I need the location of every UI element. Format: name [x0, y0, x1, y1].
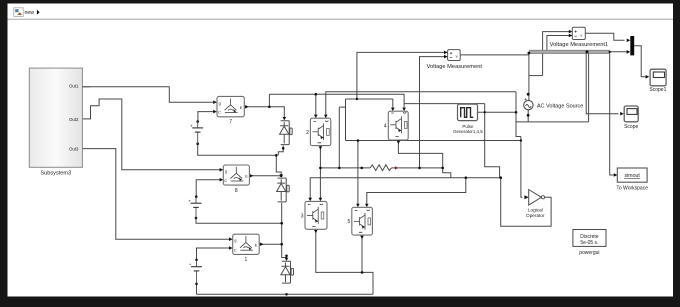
- wire rail 94: [269, 94, 404, 108]
- arrow below block2 bottom: [319, 146, 323, 149]
- junction (398.4,140.5): [397, 139, 400, 142]
- voltage measurement block: [427, 50, 483, 70]
- junction (516,112.3): [515, 111, 518, 114]
- svg-text:Generator1,4,5: Generator1,4,5: [453, 129, 483, 134]
- arrow into scope: [620, 112, 624, 116]
- svg-text:g: g: [225, 168, 227, 173]
- svg-text:To Workspace: To Workspace: [616, 185, 648, 191]
- svg-text:1: 1: [245, 257, 248, 263]
- wire bus right: [392, 167, 443, 169]
- battery B3: [189, 260, 202, 284]
- wire rail178 branch to block5 top-right: [367, 178, 466, 204]
- simout to workspace block: [616, 168, 648, 191]
- IGBT block 3 vertical: [301, 201, 327, 229]
- wire VM1 out to mux: [585, 33, 624, 40]
- svg-text:Out1: Out1: [69, 84, 79, 89]
- wire battery2 top to block8 C: [196, 180, 220, 197]
- junction (269.4,106.8): [268, 106, 271, 109]
- svg-text:E: E: [245, 173, 248, 178]
- wire battery2 bottom rail: [196, 218, 282, 223]
- arrow into block7 g: [213, 100, 217, 104]
- svg-text:Logical: Logical: [528, 208, 543, 213]
- junction (356.9,99): [356, 98, 358, 100]
- voltage measurement1 block: [550, 27, 609, 48]
- svg-text:3: 3: [301, 213, 304, 219]
- wire rail 178: [310, 178, 501, 198]
- arrow into block3 TR: [319, 198, 323, 201]
- AC voltage source: [524, 93, 584, 117]
- wire NOT input feed: [521, 137, 522, 198]
- arrow into block1 C: [229, 246, 233, 250]
- svg-text:8: 8: [235, 188, 238, 194]
- svg-text:+: +: [189, 262, 192, 267]
- wire AC plus up: [528, 53, 530, 100]
- wire pulse gen out to NOT: [477, 111, 516, 113]
- svg-text:v: v: [580, 32, 582, 37]
- junction (484.7,112.3): [484, 111, 486, 113]
- wire Out2 staircase to block8 gate: [82, 99, 220, 170]
- svg-text:g: g: [234, 238, 236, 243]
- junction (197.7,121.5): [196, 120, 199, 123]
- svg-text:5: 5: [348, 219, 351, 225]
- battery B2: [188, 197, 201, 218]
- arrow into NOT gate: [524, 195, 528, 199]
- toolbar icon: [14, 8, 23, 17]
- arrow into diodeB top: [279, 174, 283, 177]
- junction (286.5,255.8): [285, 255, 288, 258]
- arrow into mux bottom: [627, 50, 631, 54]
- band thick gray wire: [529, 50, 610, 53]
- arrow into block8 C: [220, 178, 224, 182]
- pulse generator block: [453, 104, 483, 134]
- wire bus to rail178 link: [443, 168, 451, 178]
- junction (315.8,94.2): [315, 93, 318, 96]
- svg-text:4: 4: [384, 123, 387, 129]
- wire to block2 top-left: [315, 94, 317, 115]
- svg-text:+: +: [190, 123, 193, 128]
- arrow into block4 TR: [402, 108, 406, 111]
- arrowheads: [213, 30, 649, 261]
- junction (286.5,294.3): [285, 293, 288, 296]
- arrow below block3 bottom: [314, 230, 318, 233]
- arrow into VM minus: [444, 55, 448, 59]
- junction (339.3,167.9): [338, 167, 341, 170]
- svg-text:Out3: Out3: [69, 147, 79, 152]
- IGBT block 2 vertical: [306, 118, 331, 145]
- wire gate line 103: [404, 103, 485, 105]
- arrow into VM1 minus: [569, 34, 573, 38]
- mux: [630, 36, 634, 55]
- IGBT block 5 vertical: [348, 207, 373, 235]
- toolbar arrow: [37, 10, 40, 15]
- arrow into block5 TR: [365, 204, 369, 207]
- arrow into block2 TL: [314, 115, 318, 118]
- wire AC minus: [516, 110, 589, 122]
- wire block5 bottom down: [361, 235, 363, 272]
- junction (320.4,167.9): [319, 167, 322, 170]
- arrow into block5 TL: [356, 204, 360, 207]
- junction (520.9,140.5): [520, 139, 522, 141]
- wire VM1 plus: [543, 32, 569, 76]
- junction (357.9,140.5): [357, 139, 360, 142]
- svg-text:Out2: Out2: [69, 117, 79, 122]
- wire bus left: [320, 167, 370, 169]
- wire down 345: [345, 99, 347, 141]
- wire battery3 top to block1 C: [197, 248, 230, 260]
- wire battery1 top to block7 C: [198, 112, 214, 122]
- junction (281.7,223.2): [280, 222, 283, 225]
- arrow into block7 C: [213, 110, 217, 114]
- wire L1 bridge mid rail: [346, 140, 521, 142]
- junction (361.7,167.9): [360, 167, 363, 170]
- svg-text:Voltage Measurement1: Voltage Measurement1: [550, 42, 609, 48]
- wire NOT output loop: [501, 178, 551, 227]
- wire jog 99: [346, 98, 357, 100]
- junction (609.7,51.9): [609, 51, 611, 53]
- arrow into block2 TR: [324, 115, 328, 118]
- wire jog 75: [529, 75, 543, 77]
- diode B: [277, 178, 290, 202]
- wire mux out to scope1: [634, 46, 646, 77]
- wire block8 E: [250, 175, 282, 177]
- IGBT block 1: [233, 234, 260, 263]
- arrow into scope1: [646, 75, 650, 79]
- svg-text:Scope1: Scope1: [649, 87, 666, 93]
- wire block3 bottom down: [316, 230, 373, 295]
- wire simout feed: [610, 53, 615, 175]
- wire rail155 to diodeB top: [276, 155, 281, 174]
- wire band to scope: [586, 53, 618, 113]
- wire block4 bottom to bus: [398, 141, 442, 168]
- diode C: [281, 261, 294, 283]
- junction (196.2,196.7): [195, 195, 198, 198]
- arrow into mux top: [627, 39, 631, 43]
- wire block4 TL feed: [392, 99, 394, 108]
- svg-text:2: 2: [306, 130, 309, 136]
- wire diodeA bottom jog to rail: [278, 145, 283, 155]
- arrow out block8 E: [250, 174, 254, 178]
- arrow into block3 TL: [308, 198, 312, 201]
- junction (196,217.9): [195, 217, 198, 220]
- wire jog TL: [357, 98, 393, 100]
- junction (362,272.4): [361, 271, 364, 274]
- junction (419.5,167.9): [418, 167, 421, 170]
- svg-text:v: v: [456, 54, 458, 59]
- svg-text:Subsystem3: Subsystem3: [40, 170, 71, 176]
- arrow out block7 E: [245, 105, 249, 109]
- junction (196.5,283.8): [195, 283, 198, 286]
- arrow into block4 TL: [391, 108, 395, 111]
- scope1 block: [649, 69, 666, 93]
- wire bottom rail: [197, 293, 374, 295]
- svg-text:Voltage Measurement: Voltage Measurement: [427, 64, 483, 70]
- arrow into diodeA top: [283, 117, 287, 120]
- junction (281.2,175.8): [280, 175, 283, 178]
- wire VM plus sense: [357, 52, 448, 99]
- arrow below block4 bottom: [397, 141, 401, 144]
- wire VM1 minus: [547, 36, 572, 51]
- wire pulse branch to rail178: [485, 104, 500, 178]
- wire rail 92 block2TR-block4TR: [326, 92, 516, 118]
- wire Out3 to block1 gate: [82, 149, 229, 240]
- wire block1 E right: [259, 243, 281, 245]
- wire band down 588: [588, 53, 590, 121]
- wire down 339 to bus: [338, 107, 340, 168]
- svg-text:E: E: [240, 105, 243, 110]
- IGBT block 4 vertical: [384, 111, 408, 140]
- resistor R zigzag: [370, 165, 391, 171]
- battery B1: [190, 122, 203, 144]
- svg-text:E: E: [255, 243, 258, 248]
- svg-text:new: new: [25, 10, 35, 16]
- svg-text:+: +: [188, 199, 191, 204]
- junction (465.8,177.7): [465, 176, 468, 179]
- junction (281.7,244.2): [280, 243, 283, 246]
- arrow below block5 bottom: [360, 236, 364, 239]
- junction (197.7,143.7): [196, 142, 199, 145]
- wire rail155 battery1 bottom: [198, 144, 277, 156]
- arrow into block8 g: [220, 168, 224, 172]
- svg-text:g: g: [219, 100, 221, 105]
- arrow into VM1 plus: [569, 30, 573, 34]
- wire VM minus sense: [420, 57, 448, 168]
- resistor red arrowhead: [395, 166, 398, 169]
- wire to block5 top-left: [357, 141, 359, 204]
- wire Out1 to block7 gate: [82, 87, 213, 102]
- scope block: [624, 106, 638, 130]
- wire node E7 up: [268, 94, 270, 107]
- arrow into simout: [614, 173, 618, 177]
- svg-text:5e-05 s.: 5e-05 s.: [580, 240, 598, 246]
- junction (500.7,177.7): [499, 176, 502, 179]
- toolbar separator: [8, 18, 674, 20]
- wire AC net down left: [516, 92, 521, 137]
- svg-text:C: C: [218, 110, 221, 115]
- svg-text:Operator: Operator: [526, 213, 545, 218]
- junction (283.2,148.3): [282, 147, 285, 150]
- powergui block: [573, 230, 606, 256]
- wire block7 E to diode A top: [245, 107, 285, 117]
- svg-text:AC Voltage Source: AC Voltage Source: [537, 103, 583, 109]
- IGBT block 8: [223, 165, 249, 194]
- svg-text:C: C: [234, 247, 237, 252]
- wire vertical 282: [282, 203, 287, 260]
- logical operator NOT gate: [526, 190, 545, 218]
- svg-text:7: 7: [229, 119, 232, 125]
- junction (587,51.9): [586, 50, 589, 53]
- svg-text:C: C: [224, 178, 227, 183]
- wire jog 107: [339, 106, 345, 108]
- junction (528.9,53): [528, 52, 531, 55]
- wire VM out: [460, 54, 529, 56]
- arrow into diodeC top: [285, 258, 289, 261]
- arrow out block1 E: [260, 242, 264, 246]
- svg-text:Scope: Scope: [624, 124, 638, 130]
- junction (196.5,259.9): [195, 259, 198, 262]
- arrow into block1 g: [229, 237, 233, 241]
- junction (442.7,167.9): [441, 167, 444, 170]
- arrow into VM plus: [444, 51, 448, 55]
- wire battery3 bottom: [196, 284, 198, 295]
- wire block2 bottom to block3 top-right: [319, 146, 321, 198]
- diode A: [280, 121, 293, 145]
- junction (276.3,155.3): [275, 154, 278, 157]
- svg-text:powergui: powergui: [579, 250, 599, 256]
- IGBT block 7: [217, 96, 244, 125]
